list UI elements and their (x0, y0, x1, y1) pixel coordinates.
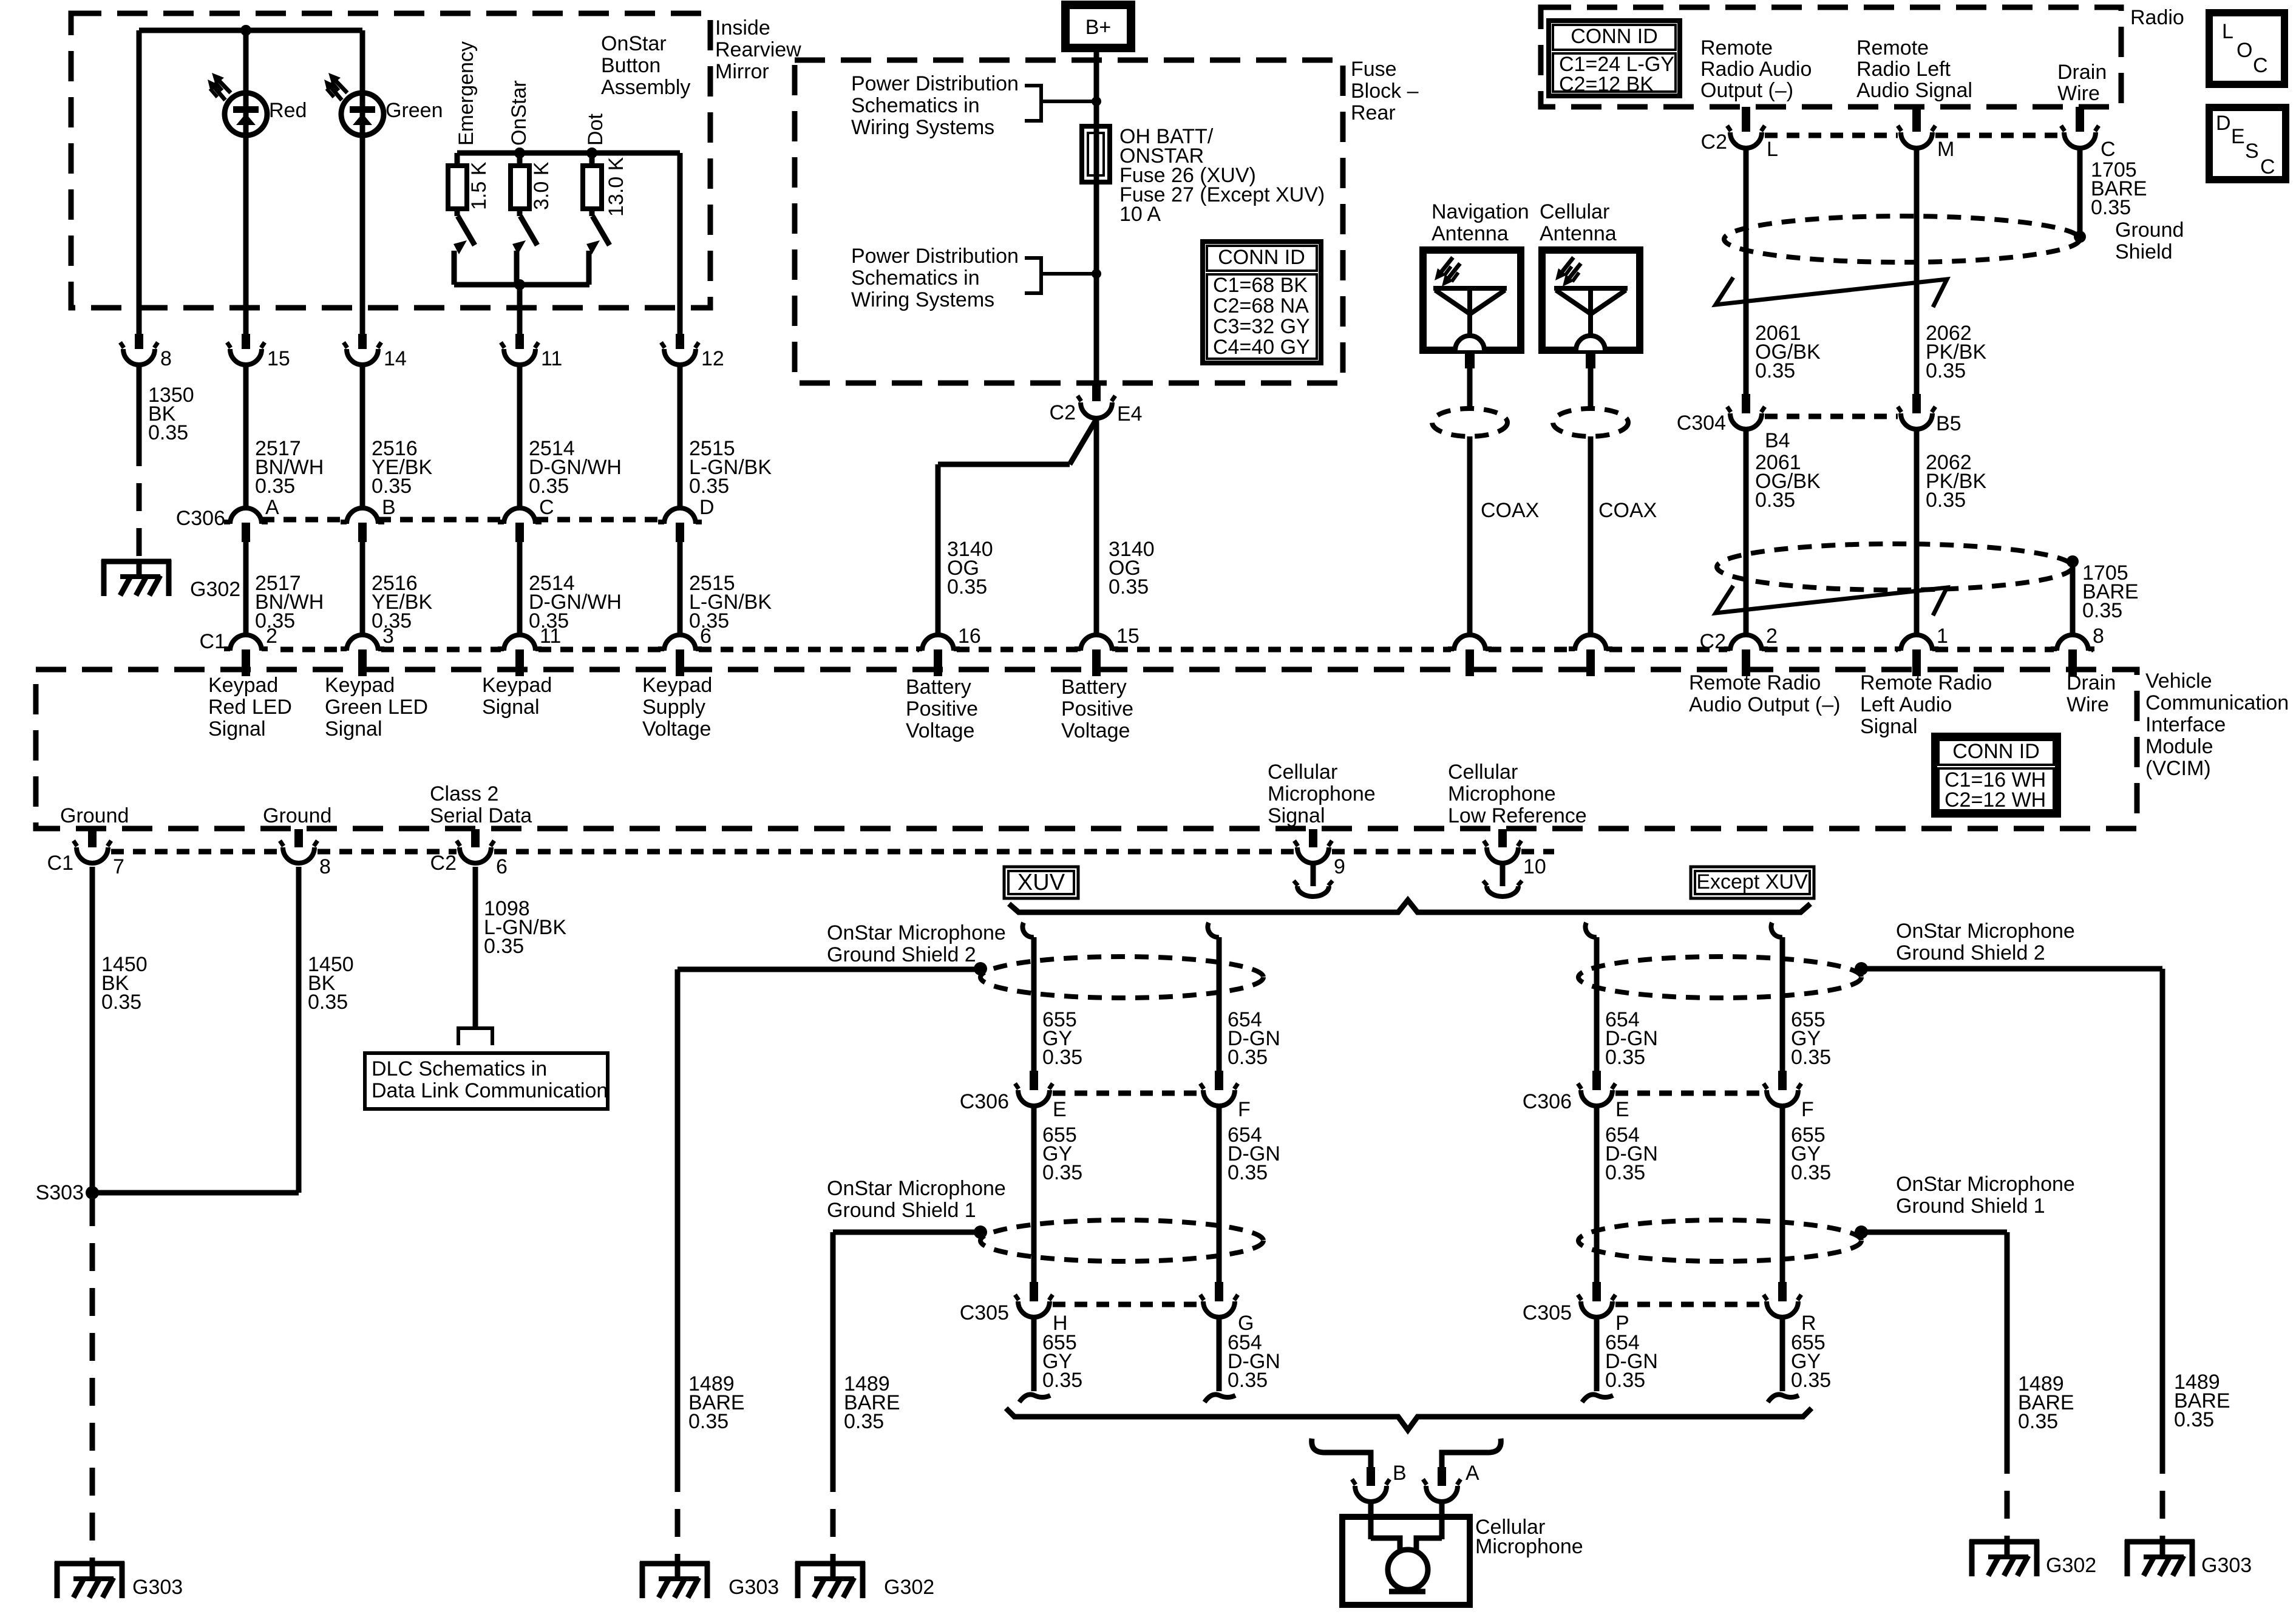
svg-text:Ground: Ground (263, 804, 331, 827)
svg-text:11: 11 (540, 625, 561, 648)
svg-text:E: E (1053, 1098, 1067, 1121)
svg-text:Ground: Ground (60, 804, 129, 827)
svg-text:C306: C306 (1523, 1090, 1572, 1113)
svg-text:H: H (1053, 1312, 1068, 1335)
svg-text:6: 6 (496, 855, 508, 878)
svg-text:Remote RadioAudio Output (–): Remote RadioAudio Output (–) (1689, 671, 1840, 716)
svg-text:6: 6 (700, 625, 712, 648)
svg-text:14: 14 (384, 347, 407, 370)
svg-text:A: A (1466, 1462, 1479, 1485)
svg-text:KeypadSupplyVoltage: KeypadSupplyVoltage (642, 674, 712, 741)
svg-text:B+: B+ (1085, 16, 1112, 39)
svg-text:COAX: COAX (1481, 499, 1539, 522)
svg-text:CellularAntenna: CellularAntenna (1540, 200, 1617, 245)
svg-text:XUV: XUV (1017, 870, 1065, 895)
svg-text:C1=16 WHC2=12 WH: C1=16 WHC2=12 WH (1944, 768, 2046, 812)
svg-text:C306: C306 (176, 507, 225, 530)
svg-text:COAX: COAX (1598, 499, 1657, 522)
svg-text:CONN ID: CONN ID (1952, 740, 2040, 763)
svg-text:C305: C305 (960, 1301, 1009, 1324)
svg-text:C2: C2 (1050, 401, 1076, 424)
svg-text:A: A (265, 496, 279, 519)
svg-text:C1=68 BKC2=68 NAC3=32 GYC4=40: C1=68 BKC2=68 NAC3=32 GYC4=40 GY (1213, 274, 1310, 359)
svg-text:L: L (2222, 20, 2233, 43)
svg-text:B4: B4 (1765, 429, 1790, 452)
svg-text:B: B (1393, 1462, 1407, 1485)
svg-text:B: B (382, 496, 396, 519)
svg-text:C1: C1 (200, 630, 226, 653)
svg-text:R: R (1801, 1312, 1816, 1335)
svg-text:OnStar: OnStar (508, 80, 531, 146)
svg-text:12: 12 (701, 347, 724, 370)
svg-text:B5: B5 (1936, 412, 1961, 435)
svg-text:C: C (2260, 155, 2275, 178)
svg-text:8: 8 (319, 855, 331, 878)
svg-text:G302: G302 (190, 578, 240, 601)
svg-text:8: 8 (160, 347, 172, 370)
svg-text:C: C (2253, 54, 2268, 77)
svg-text:C304: C304 (1677, 412, 1726, 435)
svg-text:G303: G303 (132, 1576, 183, 1599)
svg-text:C2: C2 (1700, 630, 1726, 653)
svg-text:F: F (1801, 1098, 1814, 1121)
svg-text:E: E (1615, 1098, 1629, 1121)
svg-text:C305: C305 (1523, 1301, 1572, 1324)
svg-text:16: 16 (958, 625, 981, 648)
svg-text:G303: G303 (2201, 1554, 2252, 1577)
svg-text:C: C (539, 496, 554, 519)
svg-text:O: O (2237, 39, 2252, 62)
svg-text:9: 9 (1334, 855, 1345, 878)
svg-text:DrainWire: DrainWire (2067, 671, 2116, 716)
svg-text:11: 11 (541, 347, 562, 370)
svg-text:E4: E4 (1117, 402, 1143, 425)
svg-text:D: D (699, 496, 715, 519)
svg-text:CONN ID: CONN ID (1571, 25, 1658, 48)
svg-text:G302: G302 (2046, 1554, 2096, 1577)
svg-text:G: G (1238, 1312, 1254, 1335)
svg-text:2: 2 (266, 625, 277, 648)
svg-text:M: M (1937, 138, 1954, 161)
svg-text:E: E (2231, 125, 2245, 148)
svg-text:G303: G303 (729, 1576, 779, 1599)
svg-text:2: 2 (1766, 625, 1778, 648)
svg-text:15: 15 (267, 347, 290, 370)
svg-text:15: 15 (1116, 625, 1140, 648)
svg-text:D: D (2216, 112, 2231, 135)
svg-text:Red: Red (269, 99, 307, 122)
svg-text:Green: Green (385, 99, 443, 122)
svg-text:G302: G302 (884, 1576, 934, 1599)
svg-text:DrainWire: DrainWire (2057, 61, 2107, 105)
svg-text:1.5 K: 1.5 K (467, 161, 491, 210)
svg-text:1: 1 (1937, 625, 1948, 648)
svg-text:CONN ID: CONN ID (1218, 246, 1305, 269)
svg-text:13.0 K: 13.0 K (605, 157, 628, 217)
svg-text:3.0 K: 3.0 K (530, 161, 553, 210)
svg-text:C2: C2 (430, 852, 457, 875)
svg-text:S: S (2245, 140, 2259, 163)
svg-text:7: 7 (113, 855, 124, 878)
svg-text:Except XUV: Except XUV (1696, 870, 1808, 893)
svg-text:P: P (1615, 1312, 1629, 1335)
svg-text:Emergency: Emergency (455, 41, 478, 146)
svg-text:BatteryPositiveVoltage: BatteryPositiveVoltage (906, 676, 978, 742)
svg-text:F: F (1238, 1098, 1251, 1121)
svg-text:3: 3 (382, 625, 394, 648)
svg-text:S303: S303 (36, 1181, 84, 1204)
svg-text:Dot: Dot (584, 114, 607, 146)
svg-text:L: L (1767, 138, 1778, 161)
svg-text:C: C (2101, 138, 2116, 161)
svg-text:BatteryPositiveVoltage: BatteryPositiveVoltage (1061, 676, 1133, 742)
svg-text:C2: C2 (1701, 131, 1727, 154)
svg-text:Radio: Radio (2130, 6, 2184, 29)
svg-text:8: 8 (2093, 625, 2104, 648)
svg-text:10: 10 (1523, 855, 1546, 878)
svg-text:C1: C1 (47, 852, 73, 875)
svg-text:C306: C306 (960, 1090, 1009, 1113)
